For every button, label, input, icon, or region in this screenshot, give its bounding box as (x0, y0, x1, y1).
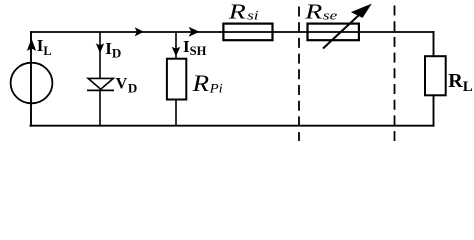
arrow ID down (96, 43, 104, 53)
svg-text:ID: ID (105, 39, 121, 61)
resistor Rse box (308, 24, 359, 41)
wire diode branch lower (99, 89, 101, 126)
wire left branch (30, 32, 32, 126)
resistor RL box (425, 56, 446, 95)
wire right branch upper (433, 32, 435, 56)
svg-text:IL: IL (37, 36, 52, 58)
variable resistor arrowhead (351, 4, 372, 18)
wire bottom rail (31, 125, 434, 127)
svg-text:RPi: RPi (191, 72, 223, 97)
variable resistor arrow shaft (323, 15, 359, 49)
wire top rail (31, 31, 434, 33)
wire diode branch upper (99, 32, 101, 79)
label Rse (304, 0, 337, 23)
resistor RPi box (167, 59, 186, 100)
label Rsi (228, 1, 259, 24)
svg-text:VD: VD (116, 76, 138, 96)
diode VD cathode bar (87, 89, 114, 91)
resistor Rsi box (223, 24, 272, 41)
arrow ISH down (172, 47, 181, 57)
wire right branch lower (433, 95, 435, 125)
arrow on top wire left (135, 27, 144, 36)
svg-text:RL: RL (448, 70, 472, 95)
svg-text:Rse: Rse (304, 0, 337, 23)
current source U1 circle (11, 63, 53, 104)
boundary dashed line left (298, 7, 300, 142)
wire shunt branch upper (175, 32, 177, 59)
arrow on top wire right (189, 27, 200, 37)
wire shunt branch lower (175, 100, 177, 126)
svg-text:ISH: ISH (183, 37, 207, 58)
arrow IL up (27, 39, 36, 51)
boundary dashed line right (394, 6, 396, 142)
diode VD triangle (88, 78, 113, 89)
label RPi (191, 72, 223, 97)
svg-text:Rsi: Rsi (228, 1, 259, 24)
